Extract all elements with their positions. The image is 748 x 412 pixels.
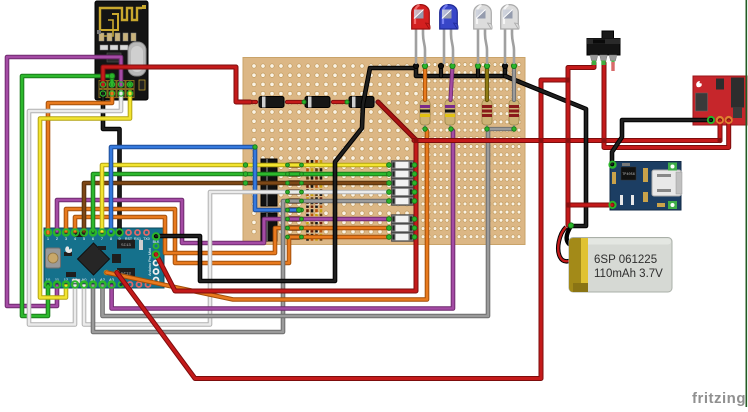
- svg-text:6SP 061225: 6SP 061225: [594, 254, 657, 266]
- svg-text:fritzing: fritzing: [692, 390, 746, 407]
- svg-text:TX0: TX0: [143, 237, 150, 241]
- svg-text:5C13: 5C13: [121, 244, 131, 248]
- svg-text:RX1: RX1: [134, 237, 141, 241]
- svg-text:TP4056: TP4056: [622, 173, 635, 177]
- svg-text:RST: RST: [125, 237, 133, 241]
- svg-text:Arduino Pro Mini: Arduino Pro Mini: [148, 248, 152, 276]
- svg-text:110mAh 3.7V: 110mAh 3.7V: [594, 268, 663, 280]
